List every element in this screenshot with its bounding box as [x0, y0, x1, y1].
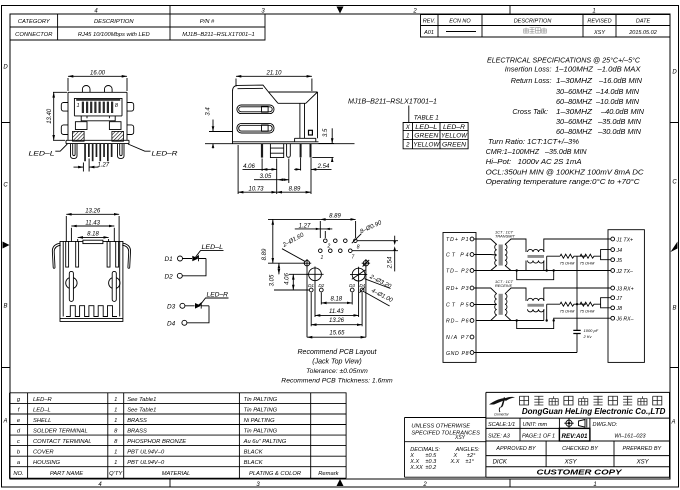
svg-text:REVISED: REVISED — [587, 19, 611, 25]
front view dim 1.27 — [74, 159, 110, 172]
front view LED-R hatched lens — [112, 131, 124, 141]
svg-text:4.06: 4.06 — [243, 164, 255, 170]
parts row g LED-R — [17, 397, 278, 403]
svg-text:RD+ P3: RD+ P3 — [446, 286, 469, 292]
wire choke L2 bottom to RX- rail — [543, 309, 545, 320]
front view base flange — [66, 140, 129, 143]
parts table grid — [10, 393, 347, 478]
pcb layout label 8-dia0.90 — [352, 220, 384, 243]
svg-text:8.18: 8.18 — [87, 232, 99, 238]
rear view left post circle — [66, 277, 77, 288]
side view solder pins — [300, 144, 302, 158]
pcb layout post hole right — [350, 267, 367, 283]
svg-text:DESCRIPTION: DESCRIPTION — [514, 19, 552, 25]
svg-text:PBT UL94V–0: PBT UL94V–0 — [127, 460, 165, 466]
svg-text:13.40: 13.40 — [47, 108, 53, 124]
svg-text:3.4: 3.4 — [205, 107, 211, 116]
svg-text:A01: A01 — [423, 30, 434, 36]
svg-text:1–30MHZ: 1–30MHZ — [556, 107, 593, 116]
pin J5 — [611, 258, 622, 264]
svg-text:SPECIFED TOLERANCES: SPECIFED TOLERANCES — [411, 431, 480, 437]
svg-text:Recommend PCB Layout: Recommend PCB Layout — [298, 349, 378, 356]
svg-text:TRANSMIT: TRANSMIT — [495, 233, 516, 238]
svg-text:2.54: 2.54 — [317, 164, 330, 170]
front view dim 13.40 — [47, 92, 67, 140]
rear view right hook — [122, 243, 130, 268]
svg-text:Tin PALTING: Tin PALTING — [244, 408, 278, 414]
tolerance decimals angles — [409, 447, 480, 471]
svg-text:SIZE: A3: SIZE: A3 — [488, 434, 511, 440]
front view LED-R leader — [128, 144, 178, 158]
LED circuit label LED-L — [195, 244, 224, 259]
svg-text:TABLE 1: TABLE 1 — [414, 115, 439, 122]
wire T2 secondary bottom — [505, 315, 511, 321]
pcb layout pin holes upper row — [324, 239, 358, 243]
front view contact pins — [84, 144, 112, 162]
side view shield hole — [309, 130, 313, 135]
resistor R2 75 ohm — [580, 254, 601, 265]
svg-text:XSY: XSY — [593, 30, 605, 36]
projection symbols — [564, 419, 587, 428]
svg-text:16.00: 16.00 — [90, 70, 106, 76]
resistor R3 75 ohm — [547, 302, 586, 313]
front view tongue ticks — [87, 116, 109, 118]
svg-text:13.26: 13.26 — [85, 209, 101, 215]
svg-text:PREPARED BY: PREPARED BY — [622, 446, 661, 452]
svg-text:GREEN: GREEN — [414, 134, 439, 140]
pcb layout dim 1.27 — [295, 223, 333, 238]
svg-text:XSY: XSY — [564, 460, 578, 466]
svg-text:2: 2 — [412, 9, 417, 15]
pin P1 — [446, 237, 474, 243]
pin P2 — [446, 269, 474, 275]
svg-text:J2 TX–: J2 TX– — [616, 269, 634, 275]
side view dim 2.54 — [294, 158, 331, 195]
svg-text:D3: D3 — [349, 283, 355, 288]
svg-text:1: 1 — [321, 255, 324, 261]
category table grid — [10, 14, 265, 40]
svg-text:CONTACT TERMINAL: CONTACT TERMINAL — [33, 439, 92, 445]
svg-text:Remark: Remark — [318, 471, 339, 477]
svg-text:J7: J7 — [616, 296, 624, 302]
svg-text:D: D — [672, 70, 677, 76]
side view dim 3.05 — [254, 159, 289, 184]
svg-text:MJ1B–B211–RSLX1T001–1: MJ1B–B211–RSLX1T001–1 — [348, 99, 437, 106]
LED circuit diode D4 wire — [167, 306, 209, 328]
svg-text:DWG.NO:: DWG.NO: — [593, 422, 618, 428]
svg-text:Q’TY: Q’TY — [109, 471, 123, 477]
wire P3 to T2 primary — [474, 288, 497, 294]
front view side latches — [61, 103, 133, 135]
J7 J8 bracket — [601, 298, 611, 308]
resistor R4 75 ohm — [580, 302, 601, 313]
svg-text:60–80MHZ: 60–80MHZ — [556, 97, 593, 106]
svg-text:–30.0dB MIN: –30.0dB MIN — [597, 127, 642, 136]
pcb layout dim 8.89 horizontal — [268, 214, 356, 238]
svg-text:LED–L: LED–L — [415, 125, 437, 131]
rear view dim 13.26 — [66, 209, 119, 242]
svg-text:SOLDER TERMINAL: SOLDER TERMINAL — [33, 429, 88, 435]
svg-text:8.89: 8.89 — [289, 186, 301, 192]
svg-text:TD+ P1: TD+ P1 — [446, 237, 469, 243]
svg-text:2: 2 — [422, 482, 427, 488]
pin J3 — [611, 286, 634, 292]
wire T1 secondary bottom — [505, 261, 526, 271]
resistor R1 75 ohm — [547, 254, 586, 265]
svg-text:30–60MHZ: 30–60MHZ — [556, 117, 593, 126]
svg-text:REV.: REV. — [423, 19, 436, 25]
rear view bottom comb — [66, 306, 117, 317]
side view dim 8.89 — [277, 186, 311, 192]
svg-text:(Jack Top View): (Jack Top View) — [312, 359, 361, 366]
LED circuit diode D1 — [165, 256, 207, 264]
svg-text:–14.0dB MIN: –14.0dB MIN — [595, 87, 640, 96]
svg-text:2015.05.02: 2015.05.02 — [628, 30, 657, 36]
svg-text:YELLOW: YELLOW — [441, 134, 468, 140]
svg-text:CHECKED BY: CHECKED BY — [562, 446, 598, 452]
front view top spring tabs — [82, 86, 112, 93]
svg-text:CUSTOMER COPY: CUSTOMER COPY — [537, 468, 623, 477]
front view port opening — [74, 98, 122, 120]
svg-text:LED–R: LED–R — [152, 151, 178, 158]
pcb layout dim 3.05 vertical — [270, 263, 279, 286]
REV A01 emphasized cell — [559, 428, 590, 441]
wire R row 1 to TX- rail — [546, 256, 548, 270]
svg-text:C: C — [672, 180, 677, 186]
wire choke L2 to J3 — [544, 288, 611, 301]
svg-text:SHELL: SHELL — [33, 418, 51, 424]
svg-text:B: B — [3, 304, 7, 310]
svg-text:B: B — [672, 306, 676, 312]
rear view left post slot — [69, 271, 73, 301]
pin P5 — [446, 303, 474, 309]
pcb layout label 4-dia1.00 — [364, 288, 394, 306]
svg-text:CATEGORY: CATEGORY — [18, 19, 51, 25]
svg-text:TD– P2: TD– P2 — [446, 269, 469, 275]
svg-text:1.27: 1.27 — [299, 223, 311, 229]
svg-text:–1.0dB MAX: –1.0dB MAX — [596, 65, 641, 74]
svg-text:D1: D1 — [308, 283, 314, 288]
svg-text:2: 2 — [327, 244, 331, 250]
svg-text:BRASS: BRASS — [127, 418, 147, 424]
svg-text:CONNECTOR: CONNECTOR — [15, 32, 53, 38]
schematic connector box P1-P8 — [443, 233, 476, 363]
svg-text:3.05: 3.05 — [260, 174, 272, 180]
svg-text:1–100MHZ: 1–100MHZ — [555, 65, 594, 74]
svg-text:DICK: DICK — [493, 460, 508, 466]
svg-text:3.5: 3.5 — [323, 128, 329, 137]
svg-text:PBT UL94V–0: PBT UL94V–0 — [127, 450, 165, 456]
pcb layout post hole left — [306, 267, 323, 283]
junction dots RX — [516, 319, 518, 321]
pin P4 — [446, 253, 474, 259]
transformer T1 label — [495, 230, 516, 239]
svg-text:Recommend PCB Thickness: 1.6mm: Recommend PCB Thickness: 1.6mm — [281, 378, 393, 385]
svg-text:1: 1 — [593, 482, 596, 488]
svg-text:ECN NO: ECN NO — [449, 19, 471, 25]
pcb layout dim 4.06 vertical — [285, 273, 294, 290]
side view dim 3.5 — [312, 128, 334, 162]
title row scale unit — [488, 422, 618, 428]
svg-text:Connector: Connector — [494, 412, 510, 416]
parts row f LED-L — [18, 408, 278, 414]
svg-text:21.10: 21.10 — [265, 70, 282, 76]
svg-text:GREEN: GREEN — [442, 143, 467, 149]
revision table grid — [421, 15, 671, 38]
front view shield body — [68, 92, 127, 140]
pcb layout pin holes lower row — [319, 249, 353, 253]
svg-text:A: A — [670, 420, 675, 426]
pin J1 — [611, 237, 633, 243]
svg-text:3.05: 3.05 — [270, 274, 276, 286]
svg-text:PLATING & COLOR: PLATING & COLOR — [249, 471, 302, 477]
svg-text:LED–L: LED–L — [29, 151, 56, 158]
svg-text:Tin PALTING: Tin PALTING — [244, 397, 278, 403]
svg-text:C: C — [3, 183, 8, 189]
svg-text:X.X: X.X — [450, 459, 460, 465]
svg-text:75 OHM: 75 OHM — [580, 261, 596, 266]
svg-text:J5: J5 — [616, 258, 623, 264]
pcb layout dim 2.54 vertical — [388, 236, 396, 272]
parts row c CONTACT TERMINAL — [17, 439, 287, 445]
svg-text:BLACK: BLACK — [244, 450, 264, 456]
front view LED-L hatched lens — [73, 131, 85, 141]
svg-text:D4: D4 — [359, 283, 365, 288]
leader from part number X to table 1 — [408, 106, 410, 123]
svg-text:REV:A01: REV:A01 — [562, 433, 588, 440]
rear view dim 11.43 — [71, 220, 114, 242]
svg-text:1: 1 — [592, 9, 595, 15]
transformer T2 — [495, 294, 507, 315]
wire TX- rail to J2 — [476, 261, 611, 271]
wire choke L1 to J1 — [544, 239, 611, 252]
wire R row 2 to RX- rail — [546, 304, 548, 320]
pcb layout dia1.60 hole right — [362, 259, 370, 267]
transformer T2 label — [495, 279, 514, 288]
front view LED-L leader — [29, 144, 68, 158]
svg-text:1: 1 — [406, 134, 409, 140]
LED circuit diode D2 wire — [165, 259, 207, 281]
svg-text:1.27: 1.27 — [97, 163, 109, 169]
pin J2 — [611, 269, 633, 275]
svg-text:UNLESS OTHERWISE: UNLESS OTHERWISE — [411, 424, 470, 430]
side view solder post — [270, 144, 283, 158]
side view bottom interior line — [233, 141, 294, 143]
pin P3 — [446, 286, 474, 292]
svg-text:J6 RX–: J6 RX– — [616, 317, 634, 323]
svg-text:J4: J4 — [616, 248, 623, 254]
wire T1 secondary to choke L1 — [505, 239, 526, 252]
side view body outline — [233, 85, 318, 144]
svg-text:8.18: 8.18 — [330, 296, 342, 302]
pcb layout dim 13.26 bottom — [311, 293, 362, 327]
svg-text:X.XX: X.XX — [409, 465, 423, 471]
wire T2 secondary to choke L2 — [505, 288, 526, 301]
parts row d SOLDER TERMINAL — [17, 429, 278, 435]
svg-text:ELECTRICAL SPECIFICATIONS @ 25: ELECTRICAL SPECIFICATIONS @ 25°C+/–5°C — [487, 55, 641, 64]
table 1 grid — [403, 123, 468, 149]
wire RX- rail to J6 — [554, 318, 611, 320]
pin J8 — [611, 306, 622, 312]
svg-text:MJ1B–B211–RSLX1T001–1: MJ1B–B211–RSLX1T001–1 — [182, 32, 254, 38]
svg-text:DECIMALS:: DECIMALS: — [410, 447, 440, 453]
TX- detour loop — [517, 271, 554, 280]
rear view LED legs — [66, 241, 119, 267]
front view right solder post — [118, 144, 125, 159]
side view dim 4.06 — [243, 159, 277, 195]
svg-text:D1: D1 — [165, 256, 174, 263]
svg-text:J8: J8 — [616, 306, 623, 312]
svg-text:See Table1: See Table1 — [127, 397, 156, 403]
parts row e SHELL — [17, 418, 275, 424]
svg-text:MATERIAL: MATERIAL — [162, 471, 191, 477]
side view dim 21.10 — [236, 70, 312, 91]
capacitor C1 1000pF — [573, 304, 598, 352]
pin J6 — [611, 316, 634, 322]
svg-text:30–60MHZ: 30–60MHZ — [556, 87, 593, 96]
svg-text:2.54: 2.54 — [388, 256, 394, 269]
rear view right post slot — [112, 271, 116, 301]
svg-text:CMR:1–100MHZ –35.0dB MIN: CMR:1–100MHZ –35.0dB MIN — [486, 147, 588, 156]
svg-text:8.89: 8.89 — [329, 214, 341, 220]
wire P4 to T1 center tap — [474, 254, 497, 257]
pcb layout dim 15.65 bottom — [307, 267, 366, 338]
svg-text:11.43: 11.43 — [329, 309, 344, 315]
front view left solder post — [71, 144, 78, 159]
svg-text:15.65: 15.65 — [329, 331, 345, 337]
svg-text:DongGuan HeLing Electronic Co.: DongGuan HeLing Electronic Co.,LTD — [522, 407, 666, 416]
company logo bird — [489, 397, 515, 412]
rear view left hook — [52, 243, 60, 268]
front view LED-L window — [75, 122, 87, 130]
pcb layout label 2-dia3.20 — [365, 274, 393, 291]
svg-text:Return Loss:: Return Loss: — [511, 76, 552, 85]
title row size page rev dwgno — [488, 434, 647, 440]
pcb layout dim 11.43 bottom — [315, 283, 359, 318]
svg-text:GND P8: GND P8 — [446, 351, 469, 357]
svg-text:XSY: XSY — [636, 460, 650, 466]
side view latch loop lower — [237, 123, 274, 133]
svg-text:11.43: 11.43 — [85, 220, 100, 226]
approval header row — [495, 446, 661, 452]
side view latch loop upper — [237, 105, 274, 114]
svg-text:1: 1 — [114, 460, 117, 466]
svg-text:LED–R: LED–R — [33, 397, 53, 403]
svg-text:D3: D3 — [167, 304, 176, 311]
pcb layout dim 8.18 bottom — [321, 293, 352, 305]
svg-text:SCALE:1/1: SCALE:1/1 — [488, 422, 515, 428]
svg-text:CT P4: CT P4 — [446, 253, 469, 259]
svg-text:10.73: 10.73 — [248, 186, 264, 192]
svg-text:1: 1 — [114, 397, 117, 403]
svg-text:NO.: NO. — [13, 471, 23, 477]
front view port top bar — [76, 99, 120, 101]
svg-text:13.26: 13.26 — [329, 318, 345, 324]
svg-text:DATE: DATE — [636, 19, 651, 25]
svg-text:75 OHM: 75 OHM — [580, 309, 596, 314]
svg-text:LED–L: LED–L — [33, 408, 51, 414]
svg-text:D4: D4 — [167, 321, 176, 328]
approval names row — [493, 460, 650, 466]
svg-text:1–30MHZ: 1–30MHZ — [556, 76, 593, 85]
side view dim 3.4 — [205, 107, 233, 149]
svg-text:See Table1: See Table1 — [127, 408, 156, 414]
wire P5 to T2 center tap — [474, 304, 497, 306]
side view left pin — [261, 144, 263, 158]
svg-text:PART NAME: PART NAME — [50, 471, 83, 477]
pcb layout right extension lines — [353, 241, 399, 251]
pcb layout dia1.60 hole left — [303, 259, 311, 267]
choke L1 — [528, 249, 545, 263]
svg-text:N/A P7: N/A P7 — [446, 335, 470, 341]
svg-text:1000 pF: 1000 pF — [584, 328, 599, 333]
svg-text:2: 2 — [405, 143, 410, 149]
parts row a HOUSING — [17, 460, 264, 466]
front view dim 16.00 — [68, 70, 127, 91]
svg-text:XSY: XSY — [454, 435, 466, 441]
svg-text:75 OHM: 75 OHM — [560, 261, 576, 266]
svg-text:–16.0dB MIN: –16.0dB MIN — [598, 76, 643, 85]
parts header row — [13, 471, 339, 477]
RX- detour loop — [517, 321, 554, 329]
svg-text:PAGE:1 OF 1: PAGE:1 OF 1 — [522, 434, 555, 440]
rear view top slot — [83, 240, 103, 243]
svg-text:Insertion Loss:: Insertion Loss: — [505, 65, 552, 74]
svg-text:OCL:350uH MIN @ 100KHZ 100mV 8: OCL:350uH MIN @ 100KHZ 100mV 8mA DC — [486, 167, 645, 176]
junction dots TX — [516, 269, 518, 271]
svg-text:7: 7 — [352, 254, 355, 260]
svg-text:Operating temperature range:0°: Operating temperature range:0°C to +70°C — [486, 177, 641, 186]
svg-text:UNIT: mm: UNIT: mm — [523, 422, 548, 428]
svg-text:A: A — [2, 419, 7, 425]
J4 J5 bracket — [601, 250, 611, 260]
svg-text:±1°: ±1° — [466, 459, 475, 465]
front view LED-R window — [109, 122, 121, 130]
pcb layout D row holes — [309, 287, 364, 292]
svg-text:Au 6u” PALTING: Au 6u” PALTING — [243, 439, 287, 445]
transformer T1 — [495, 245, 507, 266]
pin P7 — [446, 335, 474, 341]
title block outline — [486, 392, 670, 477]
parts row b COVER — [17, 450, 264, 456]
svg-text:–10.0dB MIN: –10.0dB MIN — [595, 97, 640, 106]
svg-text:D: D — [3, 65, 8, 71]
svg-text:BRASS: BRASS — [127, 429, 147, 435]
svg-text:BLACK: BLACK — [244, 460, 264, 466]
svg-text:Hi–Pot: 1000v AC 2S 1mA: Hi–Pot: 1000v AC 2S 1mA — [486, 157, 582, 166]
svg-text:1: 1 — [114, 408, 117, 414]
svg-text:ANGLES:: ANGLES: — [455, 447, 480, 453]
pin P8 — [446, 351, 474, 357]
junction R1R2 to cap — [576, 256, 578, 304]
svg-text:Ni PALTING: Ni PALTING — [244, 418, 276, 424]
wire GND P8 bus — [474, 352, 577, 354]
svg-text:YELLOW: YELLOW — [413, 143, 440, 149]
rear view dim 8.18 — [78, 232, 109, 242]
side view mounting foot — [293, 138, 319, 142]
wire P6 to T2 primary — [476, 315, 544, 321]
pin P6 — [446, 319, 474, 325]
svg-text:–40.0dB MIN: –40.0dB MIN — [600, 107, 645, 116]
svg-text:60–80MHZ: 60–80MHZ — [556, 127, 593, 136]
choke L2 — [528, 298, 545, 312]
svg-text:RECEIVE: RECEIVE — [495, 283, 512, 288]
svg-text:D2: D2 — [165, 274, 174, 281]
svg-text:LED–R: LED–R — [207, 292, 229, 299]
svg-text:P/N #: P/N # — [200, 19, 215, 25]
pcb layout left extension lines — [268, 263, 309, 290]
svg-text:APPROVED BY: APPROVED BY — [495, 446, 536, 452]
